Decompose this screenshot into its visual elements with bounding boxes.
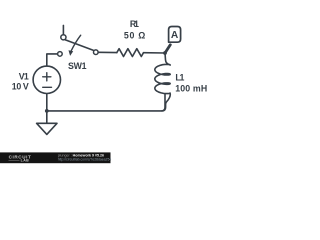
svg-text:http://circuitlab.com/c/7e28da: http://circuitlab.com/c/7e28daea254 bbox=[58, 157, 112, 161]
svg-text:LAB: LAB bbox=[21, 159, 30, 163]
V1 minus sign bbox=[43, 86, 52, 88]
wire V1 top to switch bbox=[47, 54, 58, 66]
inductor L1 bbox=[155, 53, 170, 111]
switch SW1 top terminal bbox=[61, 35, 66, 40]
switch SW1 left terminal bbox=[58, 52, 63, 57]
switch SW1 arrow bbox=[71, 35, 81, 51]
switch SW1 top stub bbox=[62, 25, 64, 34]
svg-text:R1: R1 bbox=[130, 19, 139, 29]
watermark logo wire bbox=[9, 159, 20, 161]
svg-text:V1: V1 bbox=[19, 72, 29, 82]
wire switch right to resistor bbox=[98, 51, 117, 53]
watermark bar bbox=[0, 152, 111, 163]
switch SW1 lever bbox=[65, 40, 93, 50]
ammeter A1 tail bbox=[165, 45, 170, 53]
V1 source circle bbox=[33, 66, 60, 93]
svg-text:L1: L1 bbox=[175, 73, 184, 83]
ammeter A1 flag box bbox=[169, 27, 181, 43]
V1 plus sign bbox=[43, 73, 51, 81]
svg-text:A: A bbox=[171, 30, 179, 41]
labels bbox=[12, 19, 207, 93]
svg-text:10 V: 10 V bbox=[12, 81, 29, 91]
svg-text:SW1: SW1 bbox=[68, 61, 87, 71]
resistor R1 bbox=[117, 49, 144, 57]
switch SW1 arrowhead bbox=[69, 50, 74, 56]
node A junction dot bbox=[163, 51, 167, 55]
ground bbox=[37, 123, 57, 134]
wire V1 bottom to ground bbox=[46, 94, 48, 124]
bottom rail junction dot bbox=[45, 109, 49, 113]
svg-text:50 Ω: 50 Ω bbox=[124, 31, 146, 41]
switch SW1 right terminal bbox=[94, 50, 99, 55]
wire inductor bottom / bottom rail bbox=[47, 94, 165, 111]
svg-text:100 mH: 100 mH bbox=[175, 83, 207, 93]
wire resistor to node A bbox=[144, 52, 166, 54]
